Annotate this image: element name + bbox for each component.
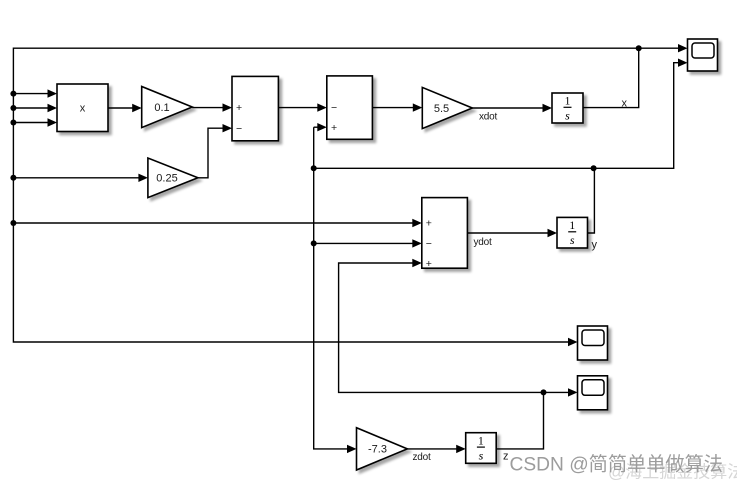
svg-text:+: + [426,258,432,270]
svg-text:s: s [479,448,484,462]
svg-text:x: x [622,98,628,110]
svg-text:5.5: 5.5 [434,103,449,115]
svg-text:-7.3: -7.3 [368,444,387,456]
svg-text:s: s [565,109,570,123]
svg-text:−: − [236,123,242,135]
svg-text:0.25: 0.25 [156,173,177,185]
svg-text:CSDN @简简单单做算法: CSDN @简简单单做算法 [510,454,724,476]
svg-text:y: y [592,239,598,251]
svg-text:xdot: xdot [479,112,498,123]
svg-text:+: + [331,122,337,134]
svg-text:x: x [80,103,86,115]
svg-text:1: 1 [478,435,484,447]
svg-text:1: 1 [569,220,575,232]
svg-text:z: z [503,451,509,463]
svg-text:−: − [426,238,432,250]
svg-text:0.1: 0.1 [154,102,169,114]
svg-text:ydot: ydot [474,237,493,248]
svg-text:−: − [331,102,337,114]
svg-text:+: + [236,102,242,114]
svg-text:zdot: zdot [413,452,432,463]
svg-text:s: s [570,233,575,247]
svg-text:1: 1 [565,96,571,108]
svg-text:+: + [426,217,432,229]
